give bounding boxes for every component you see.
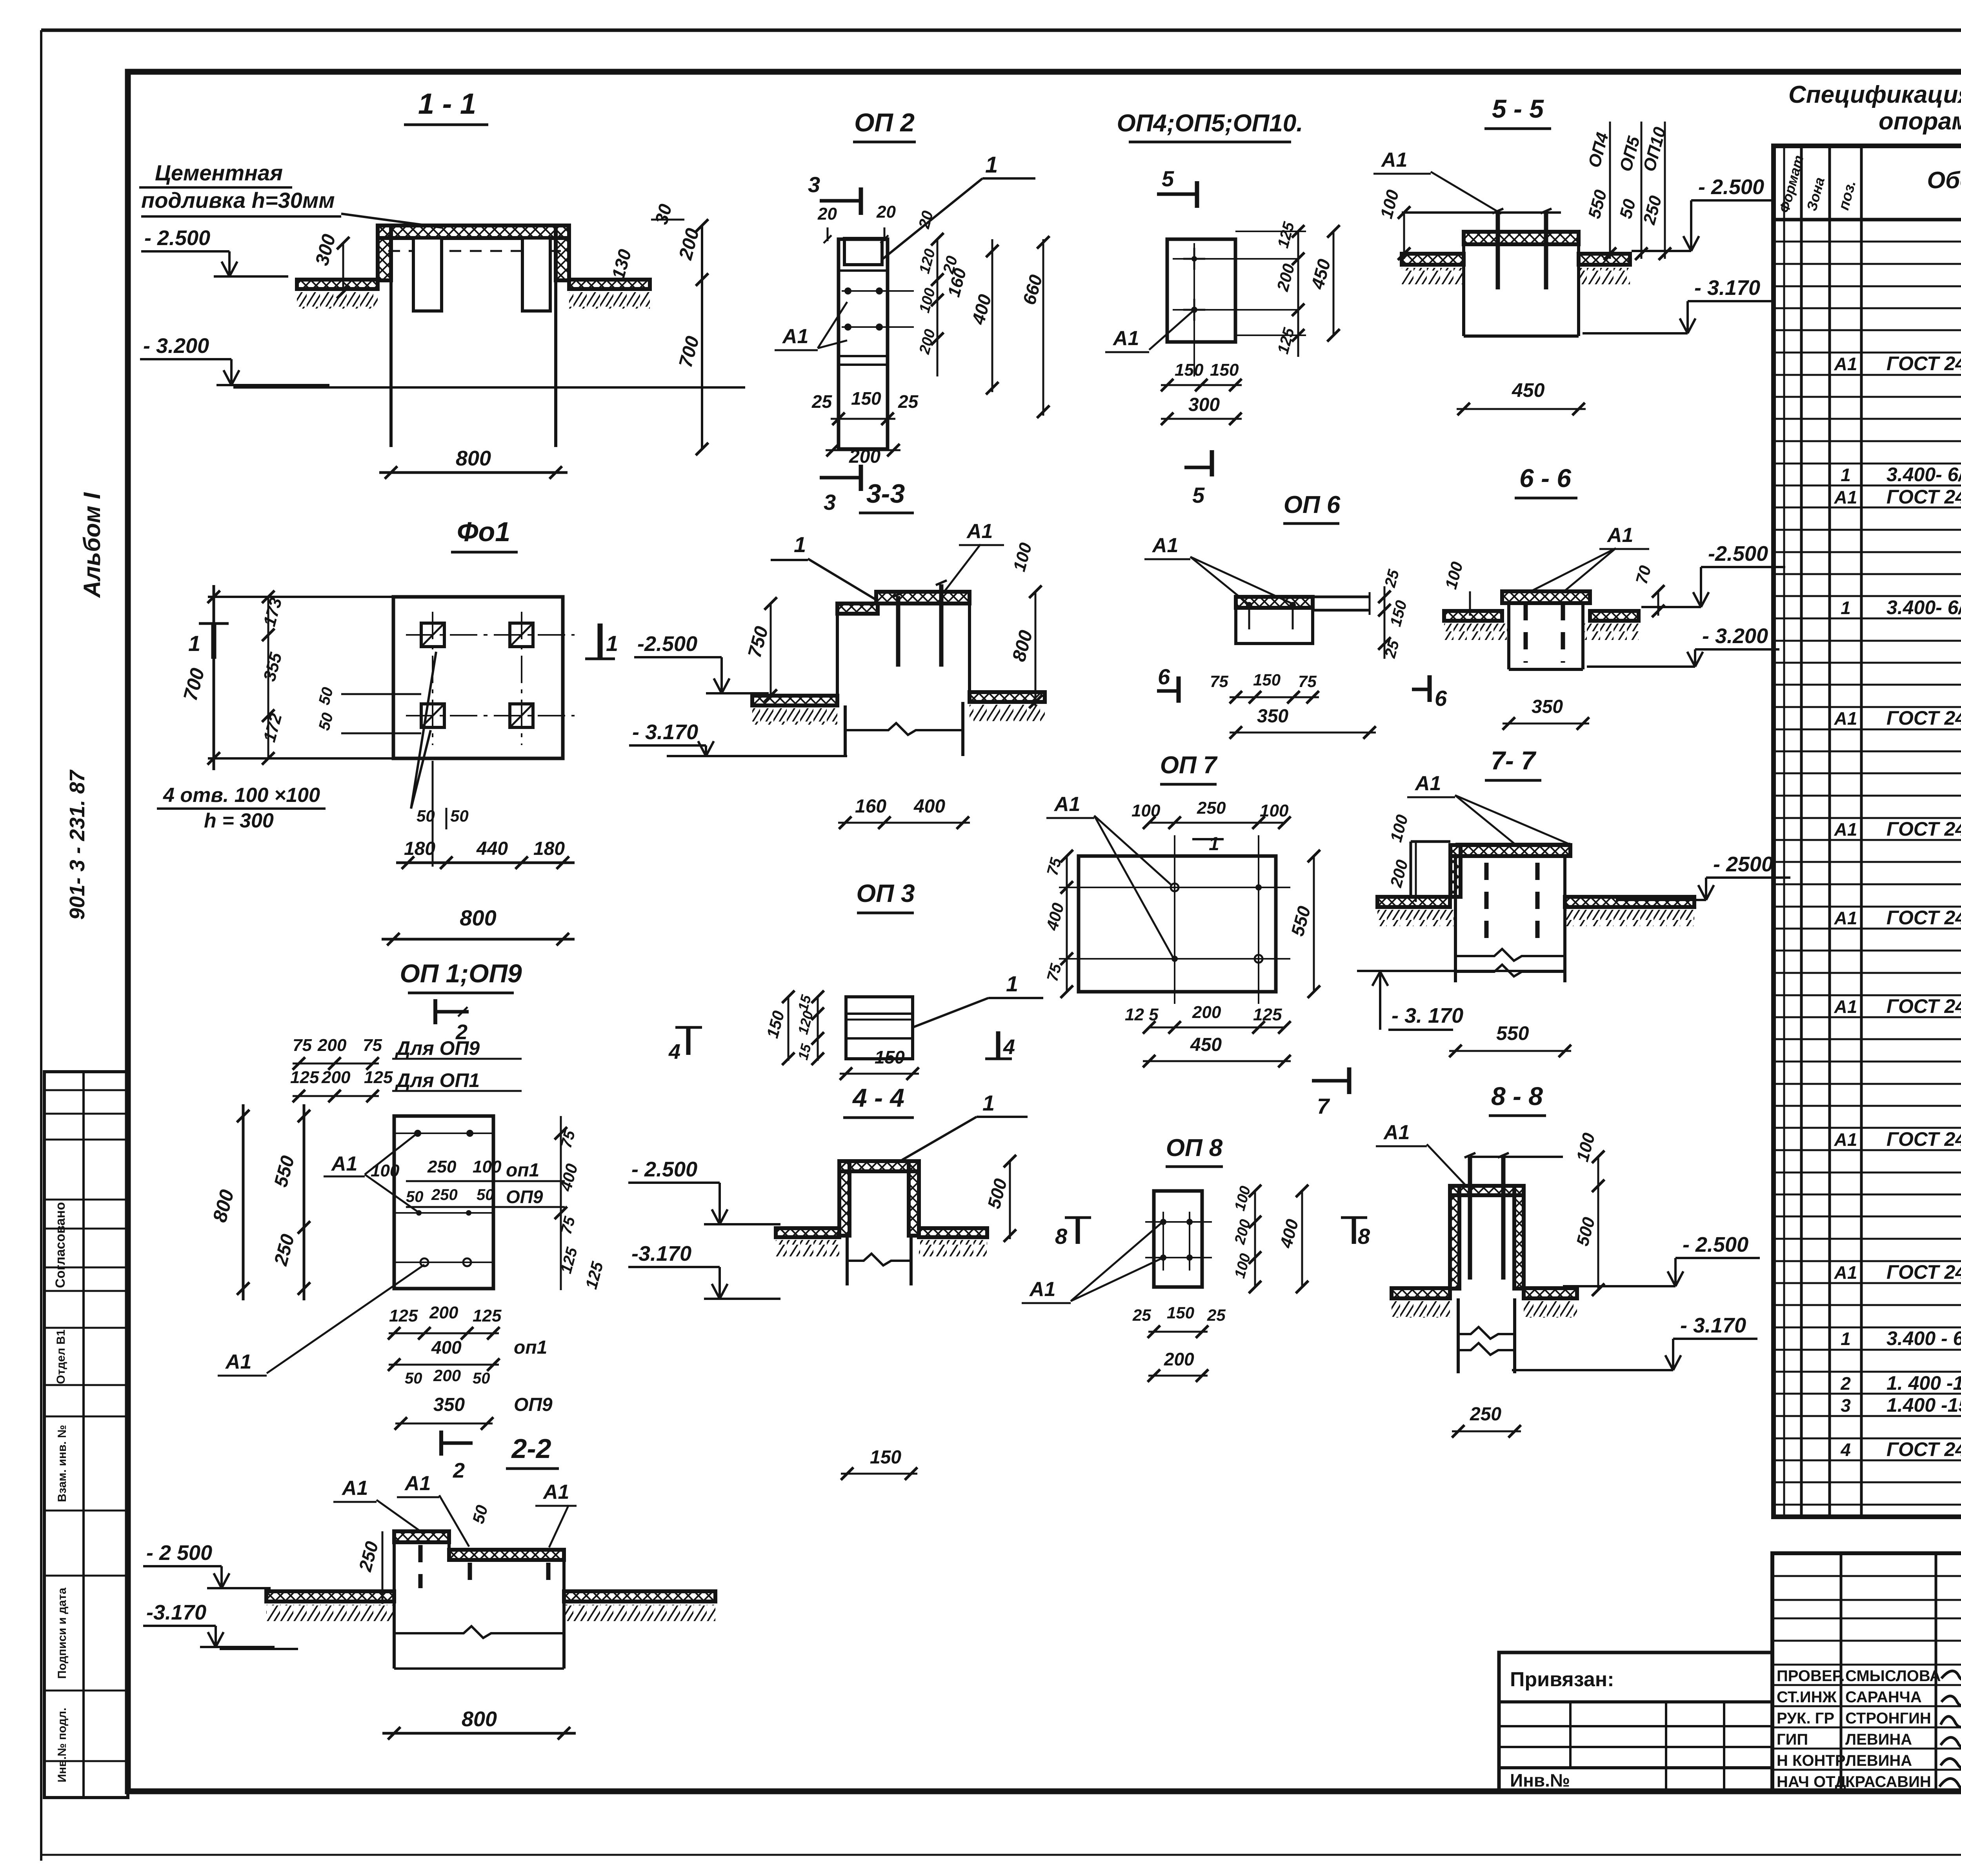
8-8 pedestal hatch top — [1450, 1186, 1524, 1195]
svg-text:ГОСТ 24379,1-80: ГОСТ 24379,1-80 — [1886, 353, 1961, 374]
OP3 leader 1 — [913, 998, 988, 1027]
svg-text:1: 1 — [188, 631, 200, 656]
svg-text:А1: А1 — [1834, 1129, 1857, 1150]
4-4 pedestal hatched cap — [839, 1161, 919, 1171]
svg-text:1: 1 — [794, 532, 806, 557]
OP3 left dims — [817, 997, 819, 1061]
4-4 floor left — [776, 1228, 839, 1237]
4-4 right dim 500 — [1009, 1161, 1011, 1239]
svg-text:6: 6 — [1435, 686, 1447, 711]
svg-text:Привязан:: Привязан: — [1510, 1668, 1614, 1691]
svg-text:ГОСТ 24379.1 -80: ГОСТ 24379.1 -80 — [1886, 907, 1961, 929]
svg-text:Цементная: Цементная — [155, 160, 283, 185]
OP2 section marker 3 bottom — [820, 476, 861, 480]
Fo1 anchor hole 4 — [510, 704, 533, 727]
svg-text:150: 150 — [870, 1447, 901, 1468]
Fo1 anchor hole 1 — [421, 623, 444, 647]
svg-text:200: 200 — [321, 1068, 351, 1087]
svg-text:800: 800 — [460, 905, 496, 930]
1-1 bottom dim 800 — [379, 471, 568, 474]
svg-text:опорам.: опорам. — [1879, 108, 1961, 135]
OP6 right chain 25/150/25 — [1384, 586, 1386, 659]
OP4 centerlines — [1173, 258, 1298, 260]
signatures squiggles — [1941, 1671, 1961, 1680]
svg-text:РУК. ГР: РУК. ГР — [1777, 1710, 1834, 1727]
svg-text:-3.170: -3.170 — [146, 1601, 206, 1624]
4-4 floor right — [919, 1228, 987, 1237]
7-7 anchor bolts dashed — [1484, 863, 1489, 949]
4-4 body below — [846, 1237, 849, 1285]
svg-text:75: 75 — [363, 1036, 382, 1055]
svg-text:1: 1 — [1006, 971, 1018, 996]
8-8 right chain 100/500 — [1597, 1157, 1599, 1290]
svg-text:3.400 - 6/76: 3.400 - 6/76 — [1886, 1327, 1961, 1349]
6-6 cap screed — [1502, 591, 1590, 603]
OP8 section marker 8 right — [1352, 1218, 1356, 1244]
1-1 floor left — [297, 280, 378, 289]
1-1 body sides — [389, 280, 393, 447]
1-1 anchor sleeve right — [522, 238, 550, 311]
OP7 left chain 75/400/75 — [1066, 856, 1068, 992]
svg-text:Фо1: Фо1 — [457, 516, 510, 547]
svg-text:Для ОП9: Для ОП9 — [395, 1037, 480, 1059]
svg-text:А1: А1 — [1834, 487, 1857, 507]
svg-text:50: 50 — [477, 1186, 494, 1203]
2-2 floor left — [266, 1591, 394, 1602]
svg-text:САРАНЧА: САРАНЧА — [1845, 1689, 1922, 1706]
svg-text:А1: А1 — [331, 1153, 357, 1175]
2-2 body outline — [393, 1531, 396, 1591]
svg-text:- 2 500: - 2 500 — [146, 1541, 212, 1565]
svg-text:ЛЕВИНА: ЛЕВИНА — [1845, 1752, 1912, 1769]
svg-text:150: 150 — [1210, 360, 1239, 380]
1-1 top slab screed — [378, 225, 569, 238]
OP8 bolts — [1160, 1219, 1166, 1225]
OP2 dim 660 — [1042, 239, 1044, 416]
OP6 section marker 6 left — [1177, 676, 1181, 703]
svg-text:4 отв. 100 ×100: 4 отв. 100 ×100 — [163, 784, 320, 807]
Fo1 inner dim chain 173/355/172 — [267, 597, 269, 758]
svg-text:25: 25 — [1132, 1306, 1151, 1324]
svg-text:25: 25 — [1207, 1306, 1226, 1324]
OP2 embedded plate 1 — [844, 238, 882, 265]
svg-text:350: 350 — [433, 1394, 465, 1415]
4-4 leader 1 — [902, 1117, 977, 1160]
OP4 plan outline — [1167, 239, 1235, 342]
svg-text:А1: А1 — [542, 1481, 569, 1503]
svg-text:4: 4 — [1003, 1035, 1015, 1059]
svg-text:180: 180 — [533, 838, 565, 859]
svg-text:- 2.500: - 2.500 — [631, 1158, 697, 1181]
svg-text:ПРОВЕР.: ПРОВЕР. — [1777, 1667, 1845, 1685]
svg-text:1: 1 — [606, 631, 618, 656]
svg-text:Инв.№ подл.: Инв.№ подл. — [56, 1708, 69, 1783]
svg-text:125: 125 — [473, 1306, 502, 1325]
svg-text:50: 50 — [406, 1188, 424, 1205]
OP1 bolt crosses mid — [416, 1210, 422, 1216]
svg-text:25: 25 — [811, 391, 833, 412]
3-3 cap screed left low — [837, 604, 878, 614]
7-7 cap screed — [1450, 845, 1570, 856]
svg-text:- 2.500: - 2.500 — [1698, 175, 1764, 199]
svg-text:2: 2 — [1840, 1373, 1851, 1394]
signature table blank rows — [1772, 1575, 1961, 1577]
svg-text:- 3.200: - 3.200 — [1702, 624, 1768, 648]
svg-text:3.400- 6/76: 3.400- 6/76 — [1886, 464, 1961, 485]
svg-text:1: 1 — [1841, 465, 1851, 485]
svg-text:8 - 8: 8 - 8 — [1491, 1082, 1543, 1111]
svg-text:440: 440 — [476, 838, 508, 859]
7-7 left step outline — [1411, 840, 1450, 843]
8-8 pedestal hatch left — [1450, 1186, 1459, 1289]
3-3 right dims 100/800 — [1035, 592, 1037, 706]
svg-text:350: 350 — [1257, 706, 1288, 727]
OP1 section marker 2 bottom — [439, 1431, 443, 1456]
svg-text:-2.500: -2.500 — [637, 632, 697, 656]
svg-text:300: 300 — [1188, 394, 1220, 415]
svg-text:450: 450 — [1512, 379, 1545, 401]
Fo1 anchor hole 2 — [510, 623, 533, 647]
OP7 plan outline — [1079, 856, 1276, 992]
1-1 right dim 200/700 — [701, 225, 703, 449]
6-6 section marker 6 bottom — [1428, 675, 1432, 702]
3-3 anchor bolts — [896, 596, 900, 667]
privyazan box — [1499, 1652, 1772, 1791]
svg-text:3: 3 — [824, 490, 836, 514]
Fo1 left dim 700 — [213, 585, 215, 770]
svg-text:8: 8 — [1358, 1224, 1370, 1249]
OP7 bolt column lines — [1174, 835, 1175, 1004]
OP2 dim 400 — [991, 239, 993, 392]
svg-text:А1: А1 — [1414, 772, 1441, 795]
svg-text:КРАСАВИН: КРАСАВИН — [1845, 1773, 1931, 1791]
1-1 side hatch left — [378, 225, 391, 280]
7-7 body below — [1455, 949, 1565, 961]
OP1 left dim 800 — [242, 1104, 245, 1300]
svg-text:А1: А1 — [782, 325, 808, 348]
2-2 bottom dim 800 — [382, 1732, 576, 1735]
svg-text:- 3.170: - 3.170 — [1680, 1314, 1746, 1337]
svg-text:ОП4;ОП5;ОП10.: ОП4;ОП5;ОП10. — [1117, 110, 1303, 137]
OP7 right dim 550 — [1313, 856, 1315, 992]
OP4 section marker 5 bottom — [1210, 450, 1214, 476]
svg-text:А1: А1 — [1834, 708, 1857, 729]
8-8 pedestal hatch right — [1514, 1186, 1524, 1289]
OP6 plate extension — [1313, 596, 1370, 598]
OP1 bolt circles bottom — [420, 1258, 428, 1266]
OP4 dim 450 — [1333, 231, 1335, 335]
OP2 right dim chains — [937, 239, 939, 376]
svg-text:200: 200 — [1192, 1003, 1221, 1022]
svg-text:550: 550 — [1496, 1022, 1529, 1044]
svg-text:125: 125 — [364, 1068, 393, 1087]
7-7 floor left — [1377, 897, 1450, 907]
OP2 lines across — [839, 355, 888, 357]
svg-text:А1: А1 — [404, 1472, 431, 1495]
svg-text:2: 2 — [453, 1459, 465, 1482]
svg-text:3: 3 — [1841, 1395, 1851, 1416]
svg-text:1: 1 — [982, 1091, 995, 1115]
svg-text:450: 450 — [1190, 1034, 1222, 1055]
svg-text:50: 50 — [473, 1370, 490, 1387]
svg-text:25: 25 — [898, 391, 919, 412]
5-5 cap screed — [1464, 232, 1579, 244]
svg-text:Подписи и дата: Подписи и дата — [56, 1587, 69, 1679]
Fo1 dim chain 180/440/180 — [396, 862, 575, 864]
svg-text:8: 8 — [1055, 1224, 1068, 1249]
svg-text:1. 400 -15. В.1. 410: 1. 400 -15. В.1. 410 — [1886, 1372, 1961, 1394]
spec table frame — [1774, 146, 1961, 1517]
7-7 side hatch left — [1450, 845, 1461, 897]
svg-text:125: 125 — [290, 1068, 319, 1087]
sidebar stamp boxes — [44, 1072, 128, 1798]
svg-text:250: 250 — [431, 1186, 458, 1203]
5-5 right rotated dims 50 op5 — [1641, 122, 1643, 259]
svg-text:- 3.170: - 3.170 — [632, 720, 698, 744]
6-6 floor right — [1590, 611, 1639, 621]
svg-text:ОП 6: ОП 6 — [1284, 491, 1341, 518]
svg-text:ГОСТ 24379.1-80: ГОСТ 24379.1-80 — [1886, 995, 1961, 1017]
spec table header row — [1774, 218, 1961, 222]
svg-text:100: 100 — [371, 1161, 400, 1180]
OP3 section marker 4 left — [686, 1027, 691, 1055]
2-2 cap screed right — [449, 1550, 564, 1560]
svg-text:А1: А1 — [1834, 1262, 1857, 1283]
OP1 right dim chain — [560, 1116, 562, 1290]
svg-text:200: 200 — [317, 1036, 347, 1055]
5-5 right rotated dims 250 op10 — [1664, 122, 1666, 259]
OP4 right chain 125/200/125 — [1297, 231, 1299, 357]
1-1 side hatch right — [556, 225, 569, 280]
OP2 bolt dots — [844, 287, 851, 294]
svg-text:- 2500: - 2500 — [1713, 853, 1773, 876]
8-8 anchor bolts — [1468, 1157, 1472, 1280]
svg-text:- 3. 170: - 3. 170 — [1392, 1004, 1463, 1027]
5-5 floor left — [1402, 254, 1464, 265]
OP6 body — [1236, 597, 1313, 644]
5-5 pedestal — [1462, 244, 1465, 336]
svg-text:- 2.500: - 2.500 — [1683, 1233, 1748, 1256]
8-8 floor left — [1392, 1288, 1450, 1298]
svg-text:А1: А1 — [1151, 534, 1178, 557]
1-1 anchor sleeve left — [413, 238, 442, 311]
svg-text:СТ.ИНЖ: СТ.ИНЖ — [1777, 1689, 1837, 1706]
OP3 bar outline — [846, 997, 913, 1059]
svg-text:Согласовано: Согласовано — [53, 1202, 68, 1288]
svg-text:400: 400 — [431, 1337, 462, 1358]
svg-text:50: 50 — [450, 807, 469, 825]
svg-text:50: 50 — [405, 1370, 422, 1387]
svg-text:НАЧ ОТД: НАЧ ОТД — [1777, 1773, 1846, 1791]
3-3 floor right — [970, 692, 1045, 702]
svg-text:А1: А1 — [966, 520, 993, 543]
svg-text:ОП 2: ОП 2 — [854, 108, 915, 137]
svg-text:ОП 3: ОП 3 — [856, 879, 915, 907]
7-7 pedestal — [1454, 856, 1457, 956]
spec table verticals — [1800, 146, 1803, 1517]
1-1 floor right — [569, 280, 650, 289]
svg-text:200: 200 — [1164, 1349, 1194, 1369]
svg-text:800: 800 — [462, 1707, 497, 1731]
svg-text:А1: А1 — [1834, 354, 1857, 374]
svg-text:Инв.№: Инв.№ — [1510, 1770, 1570, 1791]
svg-text:h = 300: h = 300 — [204, 809, 274, 832]
svg-text:- 3.200: - 3.200 — [143, 334, 209, 358]
svg-text:1: 1 — [1841, 1329, 1851, 1349]
OP7 bolts — [1171, 883, 1179, 891]
svg-text:оп1: оп1 — [514, 1337, 547, 1358]
svg-text:250: 250 — [427, 1157, 457, 1176]
svg-text:А1: А1 — [1383, 1121, 1410, 1144]
OP2 leader 1 — [883, 178, 982, 259]
svg-text:6 - 6: 6 - 6 — [1519, 464, 1572, 493]
svg-text:20: 20 — [876, 202, 896, 222]
svg-text:400: 400 — [913, 796, 945, 817]
Fo1 dim 800 — [382, 938, 575, 941]
svg-text:ОП 8: ОП 8 — [1166, 1134, 1223, 1162]
svg-text:150: 150 — [1167, 1303, 1194, 1322]
6-6 floor left — [1444, 611, 1502, 621]
svg-text:7: 7 — [1317, 1094, 1330, 1118]
svg-text:А1: А1 — [1029, 1278, 1055, 1301]
Fo1 centerlines — [406, 634, 575, 636]
3-3 cap screed right high — [876, 592, 970, 604]
svg-text:Н КОНТР: Н КОНТР — [1777, 1752, 1846, 1769]
svg-text:125: 125 — [389, 1306, 418, 1325]
svg-text:ОП9: ОП9 — [514, 1394, 553, 1415]
svg-text:3.400- 6/76: 3.400- 6/76 — [1886, 596, 1961, 618]
5-5 top line — [1402, 211, 1561, 214]
4-4 pedestal side hatch left — [839, 1161, 850, 1236]
svg-text:4: 4 — [668, 1040, 680, 1063]
OP1 left dim 550/250 — [303, 1104, 306, 1300]
svg-text:А1: А1 — [1606, 524, 1633, 547]
svg-text:250: 250 — [1197, 798, 1226, 818]
svg-text:250: 250 — [1470, 1404, 1501, 1425]
svg-text:Спецификация к фундаменту под: Спецификация к фундаменту под оборудован… — [1788, 81, 1961, 108]
Fo1 section marker 1 left — [211, 624, 216, 659]
svg-text:800: 800 — [456, 447, 491, 470]
svg-text:1 - 1: 1 - 1 — [418, 87, 476, 120]
svg-text:А1: А1 — [1834, 908, 1857, 928]
svg-text:4 - 4: 4 - 4 — [852, 1083, 904, 1112]
svg-text:А1: А1 — [1834, 819, 1857, 840]
svg-text:150: 150 — [1253, 671, 1281, 689]
svg-text:2-2: 2-2 — [511, 1433, 551, 1464]
svg-text:- 2.500: - 2.500 — [144, 226, 210, 250]
OP3 section marker 4 right — [996, 1031, 1001, 1059]
svg-text:ГОСТ 24379.1 -80: ГОСТ 24379.1 -80 — [1886, 707, 1961, 729]
6-6 anchor bolts dashed — [1524, 603, 1528, 663]
2-2 body below floor — [393, 1602, 396, 1649]
3-3 left dim 750 — [770, 604, 772, 698]
svg-text:6: 6 — [1158, 664, 1170, 689]
svg-text:ГОСТ 24379.1- 80: ГОСТ 24379.1- 80 — [1886, 1438, 1961, 1460]
cement note leader — [341, 214, 442, 227]
svg-text:125: 125 — [1253, 1005, 1282, 1024]
svg-text:7- 7: 7- 7 — [1491, 746, 1537, 775]
3-3 body below — [844, 705, 847, 730]
svg-text:А1: А1 — [225, 1351, 251, 1373]
OP8 right dim 400 — [1301, 1191, 1303, 1287]
5-5 anchor bolts — [1496, 213, 1500, 289]
svg-text:Для ОП1: Для ОП1 — [395, 1069, 480, 1091]
svg-text:160: 160 — [855, 796, 886, 817]
svg-text:1: 1 — [1209, 834, 1219, 854]
OP6 bolts — [1246, 602, 1252, 608]
svg-text:СМЫСЛОВА: СМЫСЛОВА — [1845, 1667, 1941, 1685]
signature table columns — [1840, 1553, 1843, 1791]
svg-text:5: 5 — [1192, 483, 1205, 507]
svg-text:-3.170: -3.170 — [631, 1242, 691, 1265]
svg-text:75: 75 — [1298, 672, 1317, 691]
svg-text:ОП 7: ОП 7 — [1160, 752, 1218, 779]
svg-text:-2.500: -2.500 — [1708, 542, 1768, 565]
sheet outer border — [41, 29, 1961, 32]
svg-text:- 3.170: - 3.170 — [1694, 276, 1760, 300]
svg-text:Обозначение: Обозначение — [1927, 167, 1961, 193]
7-7 top ext line — [1455, 843, 1570, 845]
svg-text:1: 1 — [1841, 598, 1851, 618]
svg-text:А1: А1 — [1381, 149, 1407, 171]
svg-text:ОП9: ОП9 — [506, 1187, 543, 1207]
svg-text:75: 75 — [293, 1036, 312, 1055]
2-2 anchor bolts dashed — [418, 1545, 423, 1588]
svg-text:Альбом I: Альбом I — [79, 492, 105, 598]
5-5 right rotated dims 550 op4 — [1609, 122, 1611, 259]
OP1 plan outline — [394, 1116, 493, 1289]
3-3 floor left — [752, 696, 837, 705]
OP7 section marker 7 bottom — [1312, 1079, 1349, 1083]
OP1 section marker 2 top — [433, 999, 437, 1024]
OP1 bolt dots top — [414, 1130, 421, 1137]
2-2 floor right — [564, 1591, 715, 1602]
spec table row grid — [1774, 241, 1961, 243]
svg-text:4: 4 — [1840, 1440, 1851, 1460]
spec table doubled left edge — [1783, 146, 1785, 1517]
svg-text:А1: А1 — [341, 1477, 368, 1500]
svg-text:75: 75 — [1210, 672, 1228, 691]
svg-text:200: 200 — [433, 1366, 461, 1385]
svg-text:150: 150 — [851, 388, 881, 409]
7-7 floor right — [1565, 897, 1694, 907]
Fo1 outline — [393, 597, 563, 758]
4-4 pedestal side hatch right — [909, 1161, 919, 1236]
signature table name rows — [1772, 1684, 1961, 1686]
Fo1 anchor hole 3 — [421, 704, 444, 727]
svg-text:ГОСТ 24379.1- 80: ГОСТ 24379.1- 80 — [1886, 818, 1961, 840]
OP8 plan outline — [1154, 1191, 1202, 1287]
svg-text:150: 150 — [875, 1047, 905, 1067]
2-2 cap screed left — [394, 1531, 449, 1542]
svg-text:350: 350 — [1532, 696, 1563, 717]
svg-text:5 - 5: 5 - 5 — [1492, 94, 1544, 123]
svg-text:3-3: 3-3 — [866, 479, 905, 509]
svg-text:ГОСТ 24379.1- 80: ГОСТ 24379.1- 80 — [1886, 1261, 1961, 1283]
svg-text:ГОСТ 24379.1- 80: ГОСТ 24379.1- 80 — [1886, 1128, 1961, 1150]
signature table frame — [1772, 1553, 1961, 1791]
svg-text:ЛЕВИНА: ЛЕВИНА — [1845, 1731, 1912, 1748]
svg-text:А1: А1 — [1112, 327, 1139, 350]
svg-text:200: 200 — [429, 1303, 458, 1322]
svg-text:5: 5 — [1162, 166, 1174, 191]
OP8 right chain 100/200/100 — [1254, 1191, 1256, 1287]
svg-text:СТРОНГИН: СТРОНГИН — [1845, 1710, 1931, 1727]
svg-text:3: 3 — [808, 172, 820, 197]
5-5 floor right — [1579, 254, 1630, 265]
svg-text:1.400 -15.В1. 420 -03: 1.400 -15.В1. 420 -03 — [1886, 1394, 1961, 1416]
OP2 column outline — [839, 239, 888, 449]
